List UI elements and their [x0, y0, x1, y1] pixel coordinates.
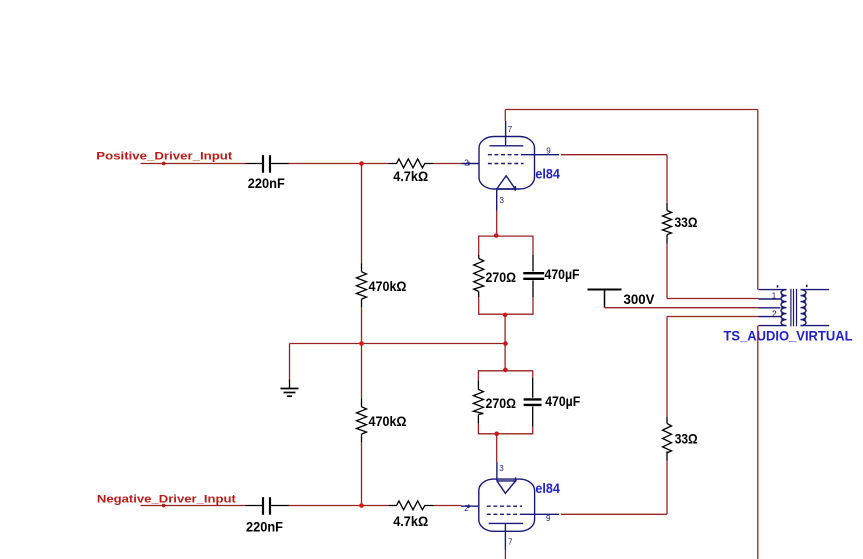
svg-text:TS_AUDIO_VIRTUAL: TS_AUDIO_VIRTUAL — [724, 328, 853, 344]
vacuum tube U2 el84 (lower, flipped) — [461, 462, 559, 550]
svg-text:33Ω: 33Ω — [675, 431, 698, 447]
wire vertical bus left — [361, 164, 363, 264]
transformer coil cusp wedges — [781, 294, 805, 322]
svg-text:4.7kΩ: 4.7kΩ — [393, 168, 428, 184]
wire — [434, 163, 462, 165]
node junction — [503, 341, 508, 346]
capacitor C1 220nF — [246, 155, 290, 191]
wire — [361, 307, 363, 399]
svg-text:270Ω: 270Ω — [486, 395, 517, 411]
RC block upper: wires — [479, 236, 533, 314]
wire — [496, 434, 498, 462]
wire — [757, 110, 759, 290]
svg-text:3: 3 — [499, 464, 504, 473]
node junction — [494, 233, 499, 238]
transformer phase dots — [777, 285, 779, 287]
capacitor C2 220nF — [246, 497, 290, 535]
resistor R2 470kOhm — [357, 264, 407, 308]
svg-text:9: 9 — [546, 147, 551, 156]
resistor R3 470kOhm — [357, 399, 407, 443]
svg-text:270Ω: 270Ω — [486, 269, 517, 285]
svg-text:Negative_Driver_Input: Negative_Driver_Input — [97, 493, 236, 505]
svg-text:220nF: 220nF — [246, 519, 283, 535]
wire — [434, 505, 462, 507]
wire tube1 pin9 right — [561, 154, 667, 156]
wire top bus — [505, 109, 758, 111]
svg-text:el84: el84 — [535, 480, 560, 496]
RC block lower: wires — [478, 371, 532, 434]
svg-text:2: 2 — [772, 309, 777, 318]
svg-text:470µF: 470µF — [545, 393, 580, 409]
power supply 300V — [588, 290, 656, 308]
node junction — [503, 368, 508, 373]
svg-text:33Ω: 33Ω — [675, 214, 698, 230]
node junction — [494, 432, 499, 437]
svg-text:7: 7 — [508, 125, 513, 134]
node junction — [359, 161, 364, 166]
capacitor C4 470uF — [524, 378, 581, 427]
svg-text:300V: 300V — [624, 291, 656, 307]
wire — [666, 317, 668, 417]
svg-text:220nF: 220nF — [248, 175, 285, 191]
wire tube2 pin9 right — [561, 513, 667, 515]
wire tube1 pin7 to top — [504, 110, 506, 122]
wire — [289, 344, 291, 380]
wire — [667, 316, 759, 318]
wire — [361, 442, 363, 506]
wire — [141, 505, 246, 507]
svg-text:4.7kΩ: 4.7kΩ — [393, 513, 428, 529]
wire — [289, 505, 389, 507]
wire tube1 pin3 down — [496, 211, 498, 237]
wire ground bus — [290, 343, 506, 345]
svg-text:2: 2 — [464, 504, 469, 513]
svg-text:2: 2 — [464, 158, 469, 167]
wire — [666, 461, 668, 514]
wire transformer bottom-left down — [757, 326, 759, 559]
wire — [667, 298, 759, 300]
resistor R6 270Ohm — [474, 255, 516, 298]
wire — [504, 314, 506, 371]
resistor R1 4.7kOhm — [389, 159, 434, 184]
resistor R4 4.7kOhm — [389, 501, 434, 529]
node junction — [359, 341, 364, 346]
wire — [141, 163, 246, 165]
node junction — [503, 313, 508, 318]
node junction — [359, 503, 364, 508]
wire — [605, 307, 759, 309]
svg-text:3: 3 — [500, 196, 505, 205]
svg-text:1: 1 — [772, 291, 777, 300]
svg-text:470kΩ: 470kΩ — [369, 278, 407, 294]
resistor R5 33Ohm — [663, 203, 698, 244]
transformer T1 TS_AUDIO_VIRTUAL — [758, 289, 829, 327]
capacitor C3 470uF — [523, 255, 580, 298]
node Positive_Driver_Input — [96, 151, 232, 166]
wire — [666, 155, 668, 203]
svg-text:470µF: 470µF — [545, 266, 580, 282]
resistor R7 270Ohm — [473, 380, 516, 423]
wire — [666, 244, 668, 299]
svg-text:7: 7 — [508, 538, 513, 547]
svg-text:470kΩ: 470kΩ — [369, 413, 407, 429]
wire — [289, 163, 389, 165]
resistor R8 33Ohm — [663, 417, 698, 461]
vacuum tube U1 el84 (upper) — [462, 121, 560, 211]
svg-text:Positive_Driver_Input: Positive_Driver_Input — [96, 151, 232, 163]
ground — [281, 380, 299, 397]
svg-text:el84: el84 — [535, 166, 560, 182]
wire tube2 pin7 down — [504, 550, 506, 559]
node Negative_Driver_Input — [97, 493, 236, 507]
svg-text:9: 9 — [546, 514, 551, 523]
